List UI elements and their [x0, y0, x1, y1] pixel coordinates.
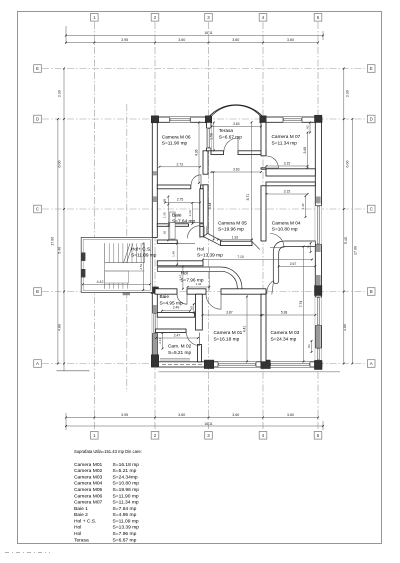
- svg-text:3.60: 3.60: [232, 38, 239, 42]
- svg-text:B: B: [36, 289, 39, 294]
- dim 2.67 hol nook: [279, 265, 316, 267]
- east exterior wall (axis 5): [315, 122, 321, 361]
- svg-text:S=11.09 mp: S=11.09 mp: [131, 253, 157, 259]
- grid marker D right: [367, 115, 375, 123]
- svg-text:1.38: 1.38: [163, 212, 167, 218]
- dim 2.47 M02: [156, 337, 198, 339]
- dim 2.75 Baie1: [165, 202, 200, 204]
- window east wall B-A lower: [315, 348, 322, 361]
- svg-text:3.30: 3.30: [345, 90, 349, 97]
- svg-text:17.00: 17.00: [51, 237, 55, 246]
- right overall dimension line 17.00: [351, 119, 353, 364]
- svg-text:Cam. M 02: Cam. M 02: [168, 344, 192, 350]
- svg-text:C: C: [36, 207, 39, 212]
- svg-text:S=6.67 mp: S=6.67 mp: [113, 537, 137, 543]
- column wing/B: [123, 291, 130, 295]
- grid axis D horizontal line: [42, 118, 367, 120]
- dim 2.19 Baie1: [191, 203, 193, 224]
- svg-text:Camera M06: Camera M06: [74, 493, 103, 499]
- svg-text:Baie 2: Baie 2: [74, 512, 88, 518]
- svg-text:S=11.34 mp: S=11.34 mp: [113, 500, 139, 506]
- door arc M04: [270, 234, 284, 248]
- duct shaft rect Baie1: [170, 212, 175, 239]
- svg-text:S=24.34 mp: S=24.34 mp: [271, 336, 297, 342]
- svg-text:4.80: 4.80: [343, 324, 347, 331]
- svg-text:C: C: [370, 207, 373, 212]
- M06/Baie1 wall stub east: [201, 185, 203, 189]
- grid axis B horizontal line: [42, 291, 367, 293]
- svg-text:3.60: 3.60: [178, 413, 185, 417]
- grid axis E horizontal line: [42, 68, 367, 70]
- west wall gray band below window: [153, 334, 157, 357]
- M05 south wall: [221, 241, 253, 245]
- svg-text:S=5.21 mp: S=5.21 mp: [168, 350, 191, 356]
- window north wall axes 4-5: [283, 117, 302, 122]
- grid axis 3 vertical line: [208, 22, 210, 431]
- stair break diagonal b: [127, 244, 134, 264]
- svg-text:S=4.95 mp: S=4.95 mp: [160, 300, 183, 306]
- svg-text:D: D: [370, 117, 373, 122]
- north exterior wall segment axes 4-5: [260, 117, 322, 122]
- dim 5.38 M03: [263, 314, 316, 316]
- hol C.S. north wall: [157, 240, 177, 243]
- svg-text:3.63: 3.63: [233, 122, 240, 126]
- svg-text:3.60: 3.60: [287, 413, 294, 417]
- svg-text:3.60: 3.60: [178, 38, 185, 42]
- dim 3.63 M05: [212, 171, 262, 173]
- svg-text:5.38: 5.38: [281, 311, 288, 315]
- shaft stripes between Baie1 and M05: [204, 226, 206, 237]
- svg-text:.83: .83: [307, 344, 311, 349]
- terrace edge line below south wall: [159, 371, 341, 373]
- axis B wall mid part: [187, 289, 206, 294]
- stair flight right edge: [144, 243, 146, 262]
- svg-text:S=16.18 mp: S=16.18 mp: [113, 462, 140, 468]
- window east wall B-A upper: [315, 297, 322, 326]
- svg-text:Camera M03: Camera M03: [74, 474, 103, 480]
- top overall dimension line 16,11: [66, 35, 323, 37]
- svg-text:3.68: 3.68: [303, 147, 307, 154]
- svg-text:S=10.80 mp: S=10.80 mp: [272, 227, 298, 233]
- window terasa west wall: [206, 128, 211, 148]
- window north wall axes 2-3: [170, 117, 191, 122]
- column axis2/B: [151, 287, 158, 294]
- M07/M04 separating wall: [266, 169, 315, 176]
- svg-text:S=19.96 mp: S=19.96 mp: [113, 487, 140, 493]
- dim 4.41 M01: [246, 297, 248, 362]
- M07 west wall lower below door: [261, 168, 266, 169]
- terasa east wall / M07 west wall upper: [261, 122, 266, 156]
- dim chain Baie1 left: [167, 197, 169, 241]
- dim 7.74 M03: [303, 247, 305, 362]
- west wall pier upper: [153, 171, 157, 175]
- svg-text:3.60: 3.60: [232, 413, 239, 417]
- svg-text:.89: .89: [190, 306, 194, 311]
- svg-text:Camera M 03: Camera M 03: [271, 330, 300, 336]
- hol C.S. south wall: [157, 261, 203, 266]
- svg-text:2.73: 2.73: [176, 163, 183, 167]
- svg-text:17.00: 17.00: [354, 246, 358, 255]
- svg-text:S=10.80 mp: S=10.80 mp: [113, 481, 140, 487]
- svg-text:S=13.39 mp: S=13.39 mp: [197, 253, 223, 259]
- dim 83 M03: [311, 341, 313, 352]
- svg-text:.92: .92: [163, 230, 167, 235]
- door arc M02: [187, 333, 200, 346]
- svg-text:Camera M04: Camera M04: [74, 481, 103, 487]
- svg-text:4.42: 4.42: [97, 280, 104, 284]
- grid marker 3 top: [205, 14, 213, 22]
- dim 1.42 hol south: [188, 286, 210, 288]
- svg-text:16,11: 16,11: [204, 31, 212, 35]
- svg-text:3.60: 3.60: [287, 38, 294, 42]
- grid axis 5 vertical line: [317, 22, 319, 431]
- svg-text:S=24.34mp: S=24.34mp: [113, 474, 138, 480]
- svg-text:6.00: 6.00: [57, 161, 61, 168]
- svg-text:Suprafata Utila=151.43 mp Din: Suprafata Utila=151.43 mp Din care:: [74, 449, 142, 454]
- grid marker 4 bottom: [259, 432, 267, 440]
- stair wing pier lower: [81, 269, 85, 277]
- dim 2.11 M02: [162, 333, 164, 349]
- svg-text:S=13.39 mp: S=13.39 mp: [113, 525, 140, 531]
- grid marker 2 top: [151, 14, 159, 22]
- svg-text:.82: .82: [306, 125, 310, 130]
- svg-text:2.11: 2.11: [158, 338, 162, 344]
- svg-text:Baie: Baie: [172, 212, 182, 218]
- left lower witness line: [57, 370, 90, 372]
- svg-text:4.36: 4.36: [195, 149, 199, 156]
- svg-text:Baie: Baie: [160, 294, 170, 300]
- svg-text:Hol + C.S.: Hol + C.S.: [74, 518, 96, 524]
- dim 89 vestibule: [193, 304, 195, 313]
- terasa curved wall inner arc: [211, 105, 262, 117]
- grid marker E left: [34, 65, 42, 73]
- door arc terasa to M05: [224, 138, 238, 152]
- svg-text:1.92: 1.92: [232, 235, 239, 239]
- svg-text:Camera M 06: Camera M 06: [162, 134, 191, 140]
- grid marker 2 bottom: [151, 432, 159, 440]
- svg-text:Baie 1: Baie 1: [74, 506, 88, 512]
- south wall 2-3 dashed infill: [162, 363, 202, 365]
- dim 7.10 hol: [203, 259, 312, 261]
- stair dim line 4.42: [83, 283, 150, 285]
- window south wall 4-5: [270, 362, 310, 367]
- grid axis 2 vertical line: [154, 22, 156, 431]
- svg-text:Camera M 05: Camera M 05: [218, 220, 247, 226]
- hol C.S. north wall sill line: [177, 242, 195, 244]
- dim 4.36 M06: [198, 123, 200, 184]
- east wall gray pier above column 5B: [316, 275, 321, 285]
- svg-text:3.15: 3.15: [284, 162, 291, 166]
- svg-text:S=7.96 mp: S=7.96 mp: [113, 531, 137, 537]
- M06/Baie1 separating wall: [157, 185, 191, 189]
- window east wall C-B: [315, 206, 322, 245]
- column axis4/A: [261, 360, 271, 369]
- svg-text:8.71: 8.71: [246, 194, 250, 201]
- stair break diagonal a: [124, 244, 131, 264]
- svg-text:E: E: [36, 66, 39, 71]
- grid marker B left: [34, 288, 42, 296]
- grid marker A left: [34, 360, 42, 368]
- door arc M06: [191, 175, 201, 185]
- terasa curved wall outer arc: [209, 105, 264, 117]
- M01/M03 wall (axis 4): [261, 294, 266, 362]
- auxiliary grid line x=126.8: [126, 104, 128, 392]
- svg-text:Camera M01: Camera M01: [74, 462, 103, 468]
- svg-text:S=16.18 mp: S=16.18 mp: [214, 336, 240, 342]
- svg-text:3.95: 3.95: [121, 38, 128, 42]
- svg-text:S=11.09 mp: S=11.09 mp: [113, 518, 139, 524]
- svg-text:E: E: [370, 66, 373, 71]
- svg-text:.76: .76: [306, 245, 310, 250]
- svg-text:3.30: 3.30: [57, 90, 61, 97]
- north exterior wall segment axes 2-3: [152, 117, 212, 122]
- top segment dimension line: [66, 42, 318, 44]
- door arc Baie1: [187, 226, 200, 239]
- svg-text:S=11.90 mp: S=11.90 mp: [113, 493, 139, 499]
- terasa/M05 separating wall west part: [211, 151, 224, 155]
- east wall gray pier below window CB: [316, 245, 321, 252]
- svg-text:Terasa: Terasa: [74, 537, 89, 543]
- dim 1.47 hol: [182, 267, 184, 289]
- dim 2.73 M06: [160, 166, 201, 168]
- column axis5/B: [315, 286, 322, 296]
- M05 southwest chamfer wall: [203, 233, 222, 245]
- svg-text:3.63: 3.63: [233, 168, 240, 172]
- window west wall M02 zone: [152, 313, 157, 334]
- grid axis A horizontal line: [42, 363, 367, 365]
- svg-text:S=7.96 mp: S=7.96 mp: [180, 277, 203, 283]
- west wall gray pier above window: [153, 305, 157, 313]
- svg-text:S=6.67 mp: S=6.67 mp: [219, 134, 242, 140]
- svg-text:4.41: 4.41: [243, 326, 247, 333]
- dim 3.44 M05: [213, 172, 215, 239]
- svg-text:D: D: [36, 117, 39, 122]
- stair landing upper line: [105, 262, 145, 264]
- dim 1.48 hall: [176, 244, 178, 265]
- svg-text:S=19.96 mp: S=19.96 mp: [218, 227, 244, 233]
- door arc M07: [266, 156, 278, 168]
- bottom overall dimension line 16,11: [66, 425, 323, 427]
- svg-text:Camera M 07: Camera M 07: [272, 134, 301, 140]
- dim 2.40 east: [305, 196, 307, 217]
- grid marker 1 top: [91, 14, 99, 22]
- svg-text:5.40: 5.40: [57, 247, 61, 254]
- svg-text:3.95: 3.95: [121, 413, 128, 417]
- west exterior wall lower (axis 2, B to A): [152, 292, 157, 361]
- M04 north wall: [266, 182, 315, 186]
- dim 2.49 vestibule: [162, 310, 190, 312]
- west wall pier mid: [153, 196, 157, 202]
- svg-text:3.87: 3.87: [226, 311, 233, 315]
- column axis2/A: [151, 355, 158, 367]
- grid marker B right: [367, 288, 375, 296]
- axis B wall west part: [155, 289, 177, 294]
- dim 1.92 M05: [218, 239, 252, 241]
- stair wing outline: [81, 237, 152, 292]
- svg-text:7.74: 7.74: [299, 301, 303, 308]
- grid marker 3 bottom: [205, 432, 213, 440]
- svg-text:S=11.90 mp: S=11.90 mp: [162, 141, 188, 147]
- grid axis 4 vertical line: [262, 22, 264, 431]
- east wall gray band mid B-A: [316, 326, 321, 348]
- grid marker C right: [367, 205, 375, 213]
- stair landing lower line: [105, 270, 145, 272]
- M02 east wall lower: [198, 345, 202, 362]
- M02 south window sill lines: [160, 358, 190, 360]
- grid axis 1 vertical line: [93, 22, 95, 431]
- column axis2/D: [151, 116, 158, 123]
- svg-text:.85: .85: [163, 198, 167, 203]
- svg-text:Hol: Hol: [197, 246, 204, 252]
- svg-text:5.40: 5.40: [344, 237, 348, 244]
- left overall dimension line 17.00: [57, 119, 59, 364]
- terasa west wall: [207, 122, 212, 151]
- svg-text:2.40: 2.40: [301, 203, 305, 209]
- dim 2.51 hol cs: [142, 243, 144, 290]
- Baie1 south wall: [157, 224, 188, 227]
- door leaf M03: [272, 281, 274, 295]
- bathtub line horizontal Baie1: [168, 221, 203, 223]
- Baie2 south wall: [157, 313, 194, 318]
- stair treads upper flights: [105, 243, 141, 262]
- grid marker 5 top: [314, 14, 322, 22]
- svg-text:Camera M07: Camera M07: [74, 500, 103, 506]
- svg-text:Camera M05: Camera M05: [74, 487, 103, 493]
- svg-text:S=4.95 mp: S=4.95 mp: [113, 512, 137, 518]
- svg-text:Camera M 04: Camera M 04: [272, 220, 301, 226]
- svg-text:3.15: 3.15: [284, 190, 291, 194]
- svg-text:Hol: Hol: [74, 531, 81, 537]
- grid marker 5 bottom: [314, 432, 322, 440]
- grid marker E right: [367, 65, 375, 73]
- svg-text:2.19: 2.19: [188, 210, 192, 216]
- svg-text:Hol: Hol: [181, 271, 188, 277]
- svg-text:2.75: 2.75: [177, 198, 184, 202]
- dim 3.68 M07: [307, 133, 309, 168]
- door arc Baie2: [177, 294, 187, 304]
- grid axis C horizontal line: [42, 208, 367, 210]
- svg-text:S=7.64 mp: S=7.64 mp: [113, 506, 137, 512]
- svg-text:Terasa: Terasa: [219, 128, 234, 134]
- west exterior wall upper (axis 2, D to wing): [152, 117, 157, 237]
- dim 3.15 M07: [266, 165, 307, 167]
- M02 north wall: [156, 329, 187, 333]
- grid marker D left: [34, 115, 42, 123]
- svg-text:2.51: 2.51: [139, 263, 143, 269]
- column axis3/A: [204, 360, 214, 369]
- svg-text:2.67: 2.67: [290, 262, 297, 266]
- M04/M05 wall (axis 4): [261, 186, 266, 241]
- Baie2 east wall: [196, 294, 203, 330]
- svg-text:3.44: 3.44: [208, 202, 212, 209]
- dim 1.58 terasa: [213, 123, 215, 151]
- grid marker A right: [367, 360, 375, 368]
- dim 76 east: [310, 243, 312, 252]
- svg-text:6.00: 6.00: [345, 161, 349, 168]
- svg-text:Camera M02: Camera M02: [74, 468, 103, 474]
- east wall gray pier above window CB: [316, 197, 321, 204]
- dim 82 M07: [309, 123, 311, 133]
- door arc M01: [206, 294, 221, 309]
- witness line right of 1.42 dim: [208, 267, 210, 290]
- column axis5/A: [314, 361, 322, 370]
- column axis5/D: [315, 115, 322, 122]
- dim 3.63 terasa: [212, 126, 262, 128]
- stair bottom flight treads: [105, 283, 128, 289]
- svg-text:1.48: 1.48: [172, 251, 176, 257]
- south exterior wall (axis A): [152, 362, 322, 367]
- wall M06/terasa/M05 vertical (axis 3 area): [203, 151, 208, 174]
- column axis3/D: [205, 116, 211, 123]
- axis B wall part right of hol: [221, 289, 266, 294]
- grid marker C left: [34, 205, 42, 213]
- svg-text:Hol+ C.S.: Hol+ C.S.: [131, 246, 151, 252]
- svg-text:Hol: Hol: [74, 525, 81, 531]
- Baie1 east wall lower extension: [200, 226, 204, 237]
- bottom-left cut dashes: [5, 552, 50, 554]
- svg-text:1.58: 1.58: [210, 133, 214, 140]
- svg-text:A: A: [36, 361, 39, 366]
- svg-text:7.10: 7.10: [237, 255, 244, 259]
- Baie1 east wall: [200, 189, 204, 224]
- bottom segment dimension line: [66, 417, 318, 419]
- left segment dimension line: [63, 69, 65, 371]
- svg-text:S=7.64 mp: S=7.64 mp: [172, 219, 195, 225]
- svg-text:A: A: [370, 361, 373, 366]
- svg-text:B: B: [370, 289, 373, 294]
- svg-text:Camera M 01: Camera M 01: [214, 330, 243, 336]
- dim 8.71 M05 tall: [251, 122, 253, 239]
- svg-text:16,11: 16,11: [204, 422, 212, 426]
- grid marker 4 top: [259, 14, 267, 22]
- hol lower wall with rounded end: [157, 267, 242, 290]
- stair mid landing rectangle: [105, 271, 129, 283]
- hol rounded wall to M03 nook: [273, 241, 315, 284]
- stair wing inner wall line: [83, 239, 150, 290]
- door arc M03: [267, 281, 274, 294]
- right segment dimension line: [343, 69, 345, 364]
- column axis4/D: [260, 116, 266, 123]
- dim 3.15 M04: [266, 193, 307, 195]
- stair flight left edge: [104, 243, 106, 288]
- terasa/M05 separating wall east part: [238, 151, 266, 155]
- svg-text:S=5.21 mp: S=5.21 mp: [113, 468, 137, 474]
- svg-text:2.47: 2.47: [174, 334, 181, 338]
- window south wall 3-4: [218, 362, 256, 367]
- grid marker 1 bottom: [91, 432, 99, 440]
- dim 3.87 M01: [203, 314, 262, 316]
- stair wing pier upper: [81, 253, 85, 261]
- svg-text:4.80: 4.80: [57, 324, 61, 331]
- M05 door leaf diagonal: [252, 242, 260, 250]
- svg-text:S=11.34 mp: S=11.34 mp: [272, 140, 298, 146]
